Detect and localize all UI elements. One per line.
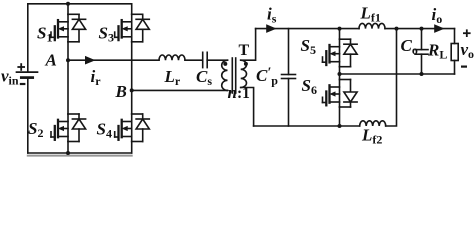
svg-text:S4: S4 <box>97 120 112 141</box>
wire S2 source to bottom rail <box>67 142 69 154</box>
svg-text:Lf1: Lf1 <box>360 4 381 25</box>
capacitor Co <box>415 50 428 55</box>
svg-text:is: is <box>267 5 277 26</box>
capacitor C'p branch bottom <box>288 79 290 127</box>
svg-text:io: io <box>432 5 443 26</box>
resistor RL <box>451 44 458 61</box>
node B <box>130 88 134 92</box>
transistor S3 <box>115 14 132 42</box>
wire Lr to Cs <box>185 59 203 61</box>
node Co bottom <box>420 72 424 76</box>
bottom rail grey shadow <box>28 155 132 157</box>
transformer T secondary winding <box>241 60 247 87</box>
wire leg1 drain stub S1 <box>67 4 69 15</box>
inductor Lf1 <box>359 23 385 28</box>
capacitor Co branch <box>421 29 423 50</box>
svg-text:S1: S1 <box>37 24 52 45</box>
svg-text:vo: vo <box>461 40 474 61</box>
node A <box>66 58 70 62</box>
transistor S1 <box>51 14 68 42</box>
arrow i_s <box>266 24 276 33</box>
node top rail / S1 <box>66 2 70 6</box>
label battery minus sign <box>20 83 26 85</box>
transformer core <box>232 58 235 93</box>
node S6 source on bottom rail <box>338 124 342 128</box>
transformer polarity dot primary <box>223 62 227 66</box>
svg-text:Lf2: Lf2 <box>361 126 382 147</box>
wire Cs to transformer primary <box>207 59 227 61</box>
label output minus sign <box>461 65 467 67</box>
wire Lf2 to junction vertical <box>386 29 397 126</box>
wire output right rail top <box>454 29 456 44</box>
wire left rail upper <box>27 4 29 71</box>
node bottom rail / S2 <box>66 151 70 155</box>
svg-text:S3: S3 <box>99 24 114 45</box>
wire S4 source to bottom rail <box>131 142 133 154</box>
wire S5 source to mid node <box>339 67 341 80</box>
wire bottom rail <box>28 152 132 154</box>
source vin battery <box>17 72 38 78</box>
transformer T primary winding <box>222 60 228 90</box>
svg-text:S5: S5 <box>301 36 316 57</box>
capacitor Cs <box>203 52 208 67</box>
svg-text:vin: vin <box>1 67 19 88</box>
capacitor Co bottom stub <box>421 54 423 74</box>
capacitor C'p branch top <box>288 29 290 75</box>
svg-text:S6: S6 <box>302 76 317 97</box>
svg-text:S2: S2 <box>28 119 43 140</box>
wire leg2 drain stub S3 <box>131 4 133 15</box>
wire left rail lower <box>27 78 29 153</box>
transistor S4 <box>115 114 132 142</box>
wire node A to resonant tank <box>68 59 159 61</box>
node S5 drain on top rail <box>338 27 342 31</box>
wire node A to S2 <box>67 60 69 114</box>
svg-text:Co: Co <box>401 36 418 57</box>
wire top rail <box>28 3 132 5</box>
arrow i_o <box>434 24 444 33</box>
svg-text:Cs: Cs <box>196 67 212 88</box>
wire S1 source to node A <box>67 42 69 60</box>
wire node B to transformer primary bottom <box>132 89 228 91</box>
svg-text:B: B <box>115 82 127 101</box>
wire secondary top to top rail <box>241 29 256 61</box>
inductor Lr <box>159 55 185 60</box>
node Lf junction top <box>395 27 399 31</box>
svg-text:T: T <box>239 42 250 59</box>
transistor S2 <box>51 114 68 142</box>
wire mid node to output minus rail <box>340 73 455 75</box>
label battery plus sign <box>17 63 25 71</box>
node Co top <box>420 27 424 31</box>
wire S3 source to node B and S4 <box>131 42 133 114</box>
svg-text:n:1: n:1 <box>228 83 250 102</box>
node S5/S6 midpoint <box>338 72 342 76</box>
arrow i_r <box>85 56 95 65</box>
inductor Lf2 <box>360 121 386 126</box>
transformer polarity dot secondary <box>244 62 248 66</box>
svg-text:Lr: Lr <box>164 67 181 88</box>
wire S6 source to bottom rail <box>339 107 341 126</box>
label output plus sign <box>463 29 471 37</box>
svg-text:A: A <box>45 51 57 70</box>
wire secondary top rail to right <box>256 28 359 30</box>
capacitor C'p <box>282 75 296 79</box>
wire Lf1 to output plus <box>385 28 455 30</box>
wire output right rail bottom <box>454 61 456 75</box>
transistor S5 <box>323 39 340 66</box>
svg-text:RL: RL <box>427 41 447 62</box>
wire S5 drain stub <box>339 29 341 40</box>
transistor S6 <box>323 80 340 108</box>
wire secondary bottom lead down <box>241 88 254 127</box>
svg-text:C′p: C′p <box>256 66 278 88</box>
wire secondary bottom rail <box>254 125 360 127</box>
svg-text:ir: ir <box>91 67 102 88</box>
